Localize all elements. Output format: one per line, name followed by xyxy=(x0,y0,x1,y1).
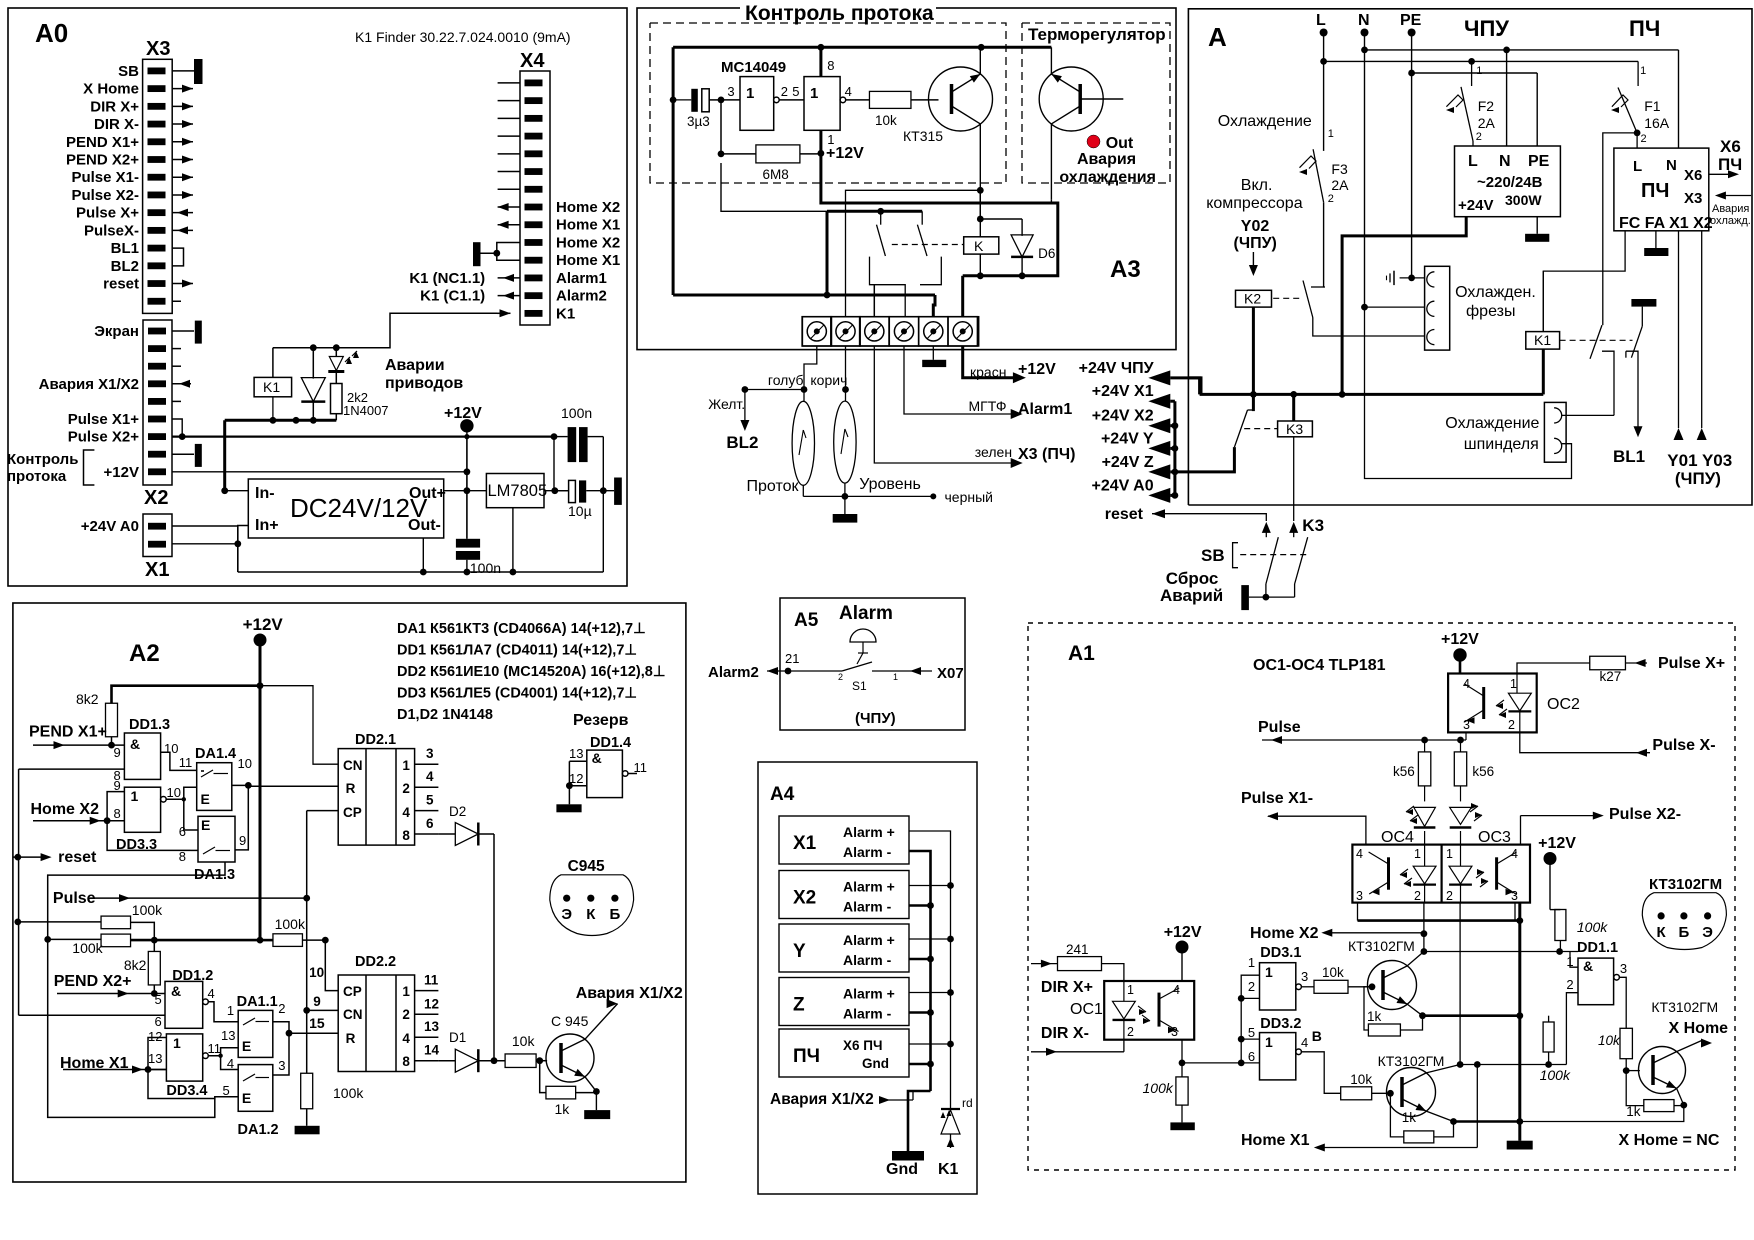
svg-text:N: N xyxy=(1499,153,1511,170)
wire R inputs DD2.2 xyxy=(289,1032,338,1034)
svg-text:&: & xyxy=(171,983,181,999)
X3 pin 6 PEND X2+ xyxy=(148,156,166,163)
svg-text:1: 1 xyxy=(1414,847,1421,861)
svg-text:+24V X2: +24V X2 xyxy=(1092,408,1154,425)
svg-text:X2: X2 xyxy=(793,888,816,909)
gate DD1.1 output xyxy=(1614,975,1620,981)
svg-text:E: E xyxy=(201,817,210,833)
svg-text:Home X2: Home X2 xyxy=(1250,925,1319,942)
X4 pin 2 xyxy=(525,97,543,104)
svg-text:DIR X-: DIR X- xyxy=(1041,1025,1089,1042)
wire DD1.1 out to 10k xyxy=(1619,977,1626,1028)
bus tap +24V Z xyxy=(1170,470,1175,473)
DD2.2 out pin 13 xyxy=(415,1036,439,1038)
svg-text:10k: 10k xyxy=(1322,965,1344,980)
svg-text:CP: CP xyxy=(343,805,362,820)
svg-text:ПЧ: ПЧ xyxy=(793,1046,820,1067)
wire reset arrow xyxy=(13,856,45,858)
wire K2 contact bottom to фрезы xyxy=(1313,318,1425,337)
svg-text:Уровень: Уровень xyxy=(859,476,921,493)
wire D2 to D1 node xyxy=(493,834,495,1058)
wire K1 bottom thick rail xyxy=(225,419,337,422)
resistor 10k Q2 xyxy=(1341,1087,1372,1100)
transistor Q1 xyxy=(1368,961,1417,1010)
svg-text:Alarm -: Alarm - xyxy=(843,1006,892,1022)
wire LM7805 out xyxy=(544,490,568,492)
wire Y02 arrow xyxy=(1252,252,1254,268)
+12V node OC2 xyxy=(1454,649,1466,661)
X4 pin 12 Alarm1 xyxy=(525,275,543,282)
svg-text:Alarm: Alarm xyxy=(839,603,893,624)
svg-text:2: 2 xyxy=(1476,131,1482,143)
wire reset right xyxy=(1152,514,1266,521)
svg-text:1: 1 xyxy=(227,1003,234,1018)
svg-text:E: E xyxy=(201,791,210,807)
svg-text:6: 6 xyxy=(155,1014,162,1029)
gate DD1.1 xyxy=(1578,958,1614,1005)
resistor k56 left xyxy=(1424,740,1426,752)
wire T3 down xyxy=(874,346,1017,463)
dashed box Контроль протока inner xyxy=(650,23,1006,183)
wire шпиндель arc2 N return xyxy=(1365,307,1572,478)
svg-text:компрессора: компрессора xyxy=(1206,195,1303,212)
OC2 phototransistor xyxy=(1482,687,1485,719)
wire Home X2 arrow xyxy=(1327,932,1424,934)
wire Q2 emitter xyxy=(1426,1111,1453,1121)
svg-text:+12V: +12V xyxy=(1018,361,1056,378)
wire DD1.2 pin6 xyxy=(19,1014,165,1016)
wire Home X1 arrow A1 xyxy=(1320,1147,1477,1149)
wire X3 arrow xyxy=(1725,195,1751,197)
svg-text:4: 4 xyxy=(208,986,215,1001)
svg-text:+24V Y: +24V Y xyxy=(1101,430,1154,447)
resistor k27 xyxy=(1590,656,1626,670)
wire K3 stub from rail xyxy=(1252,394,1255,411)
X2 pin 9 +12V xyxy=(148,468,166,475)
svg-text:100k: 100k xyxy=(1540,1067,1571,1083)
X3 out arrow DIR X+ xyxy=(172,105,193,107)
svg-text:10k: 10k xyxy=(1598,1033,1621,1048)
wire DD3.3 out to DA1.3 pin6 xyxy=(184,799,198,830)
sensor Уровень xyxy=(834,401,856,483)
svg-text:10: 10 xyxy=(167,785,181,800)
wire DA1.2 output xyxy=(273,1033,289,1075)
svg-text:2: 2 xyxy=(1508,718,1515,732)
X4 out arrow Home X2 xyxy=(498,206,520,208)
A4 X1 Alarm- wire xyxy=(909,851,931,1091)
svg-text:9: 9 xyxy=(239,833,246,848)
svg-text:Alarm -: Alarm - xyxy=(843,899,892,915)
block A0 border xyxy=(8,8,627,586)
svg-text:Pulse X+: Pulse X+ xyxy=(1658,655,1725,672)
svg-text:reset: reset xyxy=(103,276,139,293)
svg-text:9: 9 xyxy=(114,745,121,760)
wire +12V to OC2 xyxy=(1459,661,1462,674)
svg-text:Охлажден.: Охлажден. xyxy=(1455,284,1536,301)
wire Pulse arrow xyxy=(90,897,307,899)
svg-text:1: 1 xyxy=(1510,677,1517,691)
title Контроль протока xyxy=(740,0,936,22)
svg-text:BL1: BL1 xyxy=(111,240,139,257)
wire N to фрезы arc2 xyxy=(1365,306,1425,308)
wire k27 to OC2 pin1 xyxy=(1517,663,1590,674)
svg-text:Pulse X2+: Pulse X2+ xyxy=(68,429,140,446)
wire DIR X+ arrow xyxy=(1031,963,1058,965)
node голуб xyxy=(801,386,808,393)
svg-text:DD1.3: DD1.3 xyxy=(129,717,170,733)
wire N to PSU xyxy=(1506,50,1508,146)
X4 pin 8 Home X2 xyxy=(525,204,543,211)
X2 pin5 stub xyxy=(172,400,181,402)
svg-text:L: L xyxy=(1633,158,1642,175)
X4 pin 1 xyxy=(525,80,543,87)
svg-text:8: 8 xyxy=(179,849,186,864)
terminal 3 xyxy=(860,317,889,346)
svg-text:In+: In+ xyxy=(255,517,279,534)
svg-text:5: 5 xyxy=(792,84,799,99)
svg-text:D6: D6 xyxy=(1038,246,1055,261)
svg-text:2: 2 xyxy=(1566,977,1573,992)
svg-text:охлаждения: охлаждения xyxy=(1059,169,1156,186)
X2 pin 4 Авария X1/X2 xyxy=(148,380,166,387)
wire Home X1 drop xyxy=(1476,1065,1478,1148)
wire N branch xyxy=(1364,33,1366,71)
svg-text:reset: reset xyxy=(58,849,97,866)
svg-text:Gnd: Gnd xyxy=(862,1056,889,1071)
svg-text:A2: A2 xyxy=(129,640,160,667)
wire 10k to KT315 base xyxy=(911,99,939,101)
gate DD3.2 output B xyxy=(1296,1049,1302,1055)
wire Q3 collector X Home xyxy=(1677,1040,1702,1051)
wire K3 coil bottom xyxy=(1293,437,1295,521)
X2 Авария X1/X2 in-arrow xyxy=(172,383,191,385)
+12V node mid A1 xyxy=(1544,853,1556,865)
wire DD2.2 CN from pulse net xyxy=(307,1009,339,1011)
wire Out- pin xyxy=(422,538,424,572)
wire Home X2 arrow xyxy=(33,820,124,822)
svg-text:PE: PE xyxy=(1528,153,1550,170)
contact blade A3 left xyxy=(880,211,882,224)
svg-text:K2: K2 xyxy=(1244,291,1261,307)
svg-text:15: 15 xyxy=(309,1015,325,1031)
node корич xyxy=(842,386,849,393)
LED rd K1 xyxy=(950,1102,952,1109)
svg-text:+24V A0: +24V A0 xyxy=(81,518,139,535)
switch S1 xyxy=(785,668,792,675)
X3 pin 5 PEND X1+ xyxy=(148,138,166,145)
svg-text:9: 9 xyxy=(114,778,121,793)
wire T2 up xyxy=(846,190,981,316)
svg-text:Pulse X2-: Pulse X2- xyxy=(71,187,139,204)
wire SB common xyxy=(1249,596,1295,598)
svg-text:5: 5 xyxy=(223,1083,230,1098)
svg-text:DIR X+: DIR X+ xyxy=(90,98,139,115)
arrow Y01 xyxy=(1674,428,1684,440)
bus +24V right xyxy=(1173,401,1176,495)
svg-text:DIR X-: DIR X- xyxy=(94,116,139,133)
svg-text:K1: K1 xyxy=(263,379,280,395)
svg-text:ПЧ: ПЧ xyxy=(1629,16,1660,41)
svg-text:Pulse X1+: Pulse X1+ xyxy=(68,411,140,428)
wire PE to PSU xyxy=(1536,73,1538,146)
svg-text:OC1-OC4 TLP181: OC1-OC4 TLP181 xyxy=(1253,657,1386,674)
svg-text:4: 4 xyxy=(1301,1035,1308,1050)
svg-text:Pulse: Pulse xyxy=(53,890,96,907)
wire +12V rail (Pulse X2+ row) xyxy=(172,436,554,438)
X4 pin4 stub xyxy=(498,135,520,137)
X2 pin2 stub xyxy=(172,348,181,350)
resistor 6M8 xyxy=(756,145,800,163)
wire +24V Z via contact xyxy=(1175,447,1235,472)
svg-text:2: 2 xyxy=(838,672,843,682)
X2 pin 1 Экран xyxy=(148,328,166,335)
ground bar T5 xyxy=(922,360,946,367)
X1 pin 1 +24V A0 xyxy=(148,523,166,530)
svg-text:10k: 10k xyxy=(512,1033,536,1049)
svg-text:DA1 К561КТ3 (CD4066A) 14(+12),: DA1 К561КТ3 (CD4066A) 14(+12),7⊥ xyxy=(397,621,646,637)
svg-text:X07: X07 xyxy=(937,665,964,682)
capacitor 3u3 xyxy=(673,99,691,101)
X3 out arrow PEND X1+ xyxy=(172,141,193,143)
X3 out arrow PEND X2+ xyxy=(172,159,193,161)
X3 pin 8 Pulse X2- xyxy=(148,192,166,199)
svg-text:OC1: OC1 xyxy=(1070,1001,1103,1018)
wire +12V junction r2 xyxy=(131,939,260,942)
svg-text:+12V: +12V xyxy=(826,145,864,162)
svg-text:4: 4 xyxy=(845,84,852,99)
svg-text:6: 6 xyxy=(426,816,434,831)
svg-text:Вкл.: Вкл. xyxy=(1241,177,1273,194)
svg-text:DD3.2: DD3.2 xyxy=(1260,1016,1301,1032)
svg-text:2: 2 xyxy=(1414,889,1421,903)
terminal 4 xyxy=(889,317,918,346)
svg-text:1: 1 xyxy=(1476,65,1482,77)
svg-text:8: 8 xyxy=(827,58,834,73)
svg-text:K1: K1 xyxy=(938,1161,959,1178)
svg-text:4: 4 xyxy=(402,1031,410,1046)
A4 box Z xyxy=(779,978,909,1026)
svg-text:Alarm1: Alarm1 xyxy=(556,270,607,287)
resistor 100k r2 xyxy=(101,934,131,947)
svg-text:8: 8 xyxy=(114,806,121,821)
wire шпиндель arc1 to K1a xyxy=(1562,414,1614,416)
svg-text:К: К xyxy=(1657,924,1667,941)
wire DD1.1 pin1 net xyxy=(1424,951,1578,953)
svg-text:Alarm -: Alarm - xyxy=(843,952,892,968)
svg-text:1: 1 xyxy=(746,85,754,102)
svg-text:CN: CN xyxy=(343,1007,363,1022)
DD2.2 out pin 12 xyxy=(415,1013,439,1015)
wire +24V rail to ЧПУ label xyxy=(1189,378,1200,395)
wire thermo emitter to K node xyxy=(1050,200,1052,202)
svg-text:+24V ЧПУ: +24V ЧПУ xyxy=(1079,360,1155,377)
SB blade 1 xyxy=(1266,537,1278,584)
resistor 100k pullup DD1.1 xyxy=(1555,910,1566,941)
svg-text:10: 10 xyxy=(238,756,252,771)
connector Охлаждение шпинделя xyxy=(1544,402,1566,462)
ground bar sensors xyxy=(844,496,846,514)
wire K1 top rail xyxy=(272,348,274,378)
X4 pin 4 xyxy=(525,133,543,140)
svg-text:Pulse X1-: Pulse X1- xyxy=(1241,790,1313,807)
svg-text:100k: 100k xyxy=(333,1085,364,1101)
svg-text:16A: 16A xyxy=(1644,115,1670,131)
resistor 10k Q3 xyxy=(1620,1028,1632,1058)
wire T6 thick down xyxy=(963,274,981,277)
wire Q2 collector xyxy=(1426,1065,1460,1073)
svg-text:CN: CN xyxy=(343,758,363,773)
svg-text:DD3 К561ЛЕ5 (CD4001) 14(+12),7: DD3 К561ЛЕ5 (CD4001) 14(+12),7⊥ xyxy=(397,686,637,702)
indicator LED right xyxy=(1460,786,1462,802)
svg-text:3: 3 xyxy=(727,84,734,99)
bus tap +24V A0 xyxy=(1170,494,1175,497)
svg-text:Home X2: Home X2 xyxy=(556,234,620,251)
svg-text:X Home = NC: X Home = NC xyxy=(1619,1132,1720,1149)
X4 pin 9 Home X1 xyxy=(525,221,543,228)
dashed K3 link xyxy=(1244,428,1277,430)
bell symbol S1 xyxy=(850,629,876,642)
dashed K2 link xyxy=(1273,297,1303,299)
diode D6 xyxy=(980,218,1022,220)
ground bar OC1 xyxy=(1181,1105,1183,1122)
wire Q2 emitter to gnd rail xyxy=(1454,1120,1520,1123)
A4 box X1 xyxy=(779,816,909,864)
relay K2 coil xyxy=(1236,290,1272,307)
svg-text:Pulse X1-: Pulse X1- xyxy=(71,169,139,186)
svg-text:(ЧПУ): (ЧПУ) xyxy=(855,710,896,727)
optocoupler OC2 box xyxy=(1448,674,1537,733)
wire +12V to OC1 pin4 xyxy=(1181,953,1183,981)
wire K3 coil top thick xyxy=(1292,394,1295,421)
relay K coil xyxy=(979,189,981,237)
bus tap +24V Y xyxy=(1170,447,1175,450)
A4 X2 Alarm- wire xyxy=(909,904,931,907)
inverter U1b MC14049 xyxy=(779,99,804,101)
svg-text:5: 5 xyxy=(426,793,434,808)
X4 pin 7 xyxy=(525,186,543,193)
X4 out arrow Home X1 xyxy=(498,224,520,226)
svg-text:1: 1 xyxy=(1640,65,1646,77)
svg-text:DD2.2: DD2.2 xyxy=(355,954,396,970)
svg-text:X4: X4 xyxy=(520,50,545,72)
svg-text:SB: SB xyxy=(1201,546,1225,565)
wire gnd bus A1 xyxy=(1518,903,1521,1141)
block A1 dashed border xyxy=(1028,623,1735,1170)
svg-text:Авария X1/X2: Авария X1/X2 xyxy=(39,376,139,393)
svg-text:Терморегулятор: Терморегулятор xyxy=(1028,25,1166,44)
sensor Проток xyxy=(792,401,814,485)
svg-text:Авария: Авария xyxy=(1077,151,1136,168)
svg-text:13: 13 xyxy=(569,746,583,761)
svg-text:X1: X1 xyxy=(145,559,169,581)
terminal block A3 xyxy=(802,317,978,346)
svg-text:4: 4 xyxy=(1356,847,1363,861)
wire K2 down thick xyxy=(1252,307,1255,394)
wire T5 ground xyxy=(932,346,934,360)
svg-text:4: 4 xyxy=(227,1056,234,1071)
X4 pin3 stub xyxy=(498,117,520,119)
wire F1 to ПЧ L xyxy=(1636,133,1638,148)
wire Home X1 net vertical xyxy=(48,939,239,1117)
wire N vertical long xyxy=(1364,70,1366,307)
wire DA1.4 output node xyxy=(232,784,249,786)
diode 1N4007 xyxy=(312,348,314,379)
svg-text:BL2: BL2 xyxy=(726,433,758,452)
wire 10k to base xyxy=(536,1060,547,1062)
block A border xyxy=(1188,9,1752,505)
svg-text:2: 2 xyxy=(1446,889,1453,903)
dashed K1 link xyxy=(1560,339,1633,341)
svg-text:1: 1 xyxy=(1127,983,1134,997)
svg-text:Gnd: Gnd xyxy=(886,1161,918,1178)
wire In- drop xyxy=(223,420,226,490)
svg-text:DA1.1: DA1.1 xyxy=(237,994,278,1010)
wire thermo emitter down xyxy=(1050,124,1052,200)
svg-text:1: 1 xyxy=(1248,955,1255,970)
svg-text:F2: F2 xyxy=(1478,98,1495,114)
svg-text:100k: 100k xyxy=(1143,1080,1174,1096)
wire DD3.2 out to 10k xyxy=(1301,1052,1340,1094)
wire DD1.3 pin8 reset net xyxy=(19,768,125,770)
wire PSU +24V out thick xyxy=(1342,217,1466,395)
OC3 LED internal xyxy=(1460,831,1462,866)
svg-text:A4: A4 xyxy=(770,784,795,805)
X4 pin 11 Home X1 xyxy=(525,257,543,264)
DD2.1 out pin 5 xyxy=(415,810,439,812)
svg-text:+12V: +12V xyxy=(1538,835,1576,852)
svg-text:КТ3102ГМ: КТ3102ГМ xyxy=(1378,1053,1445,1069)
svg-text:фрезы: фрезы xyxy=(1466,303,1515,320)
gate DD3.4 output xyxy=(203,1053,209,1059)
svg-text:Охлаждение: Охлаждение xyxy=(1445,415,1539,432)
X3 pin 11 BL1 xyxy=(148,245,166,252)
X3 SB shield bar xyxy=(172,70,194,72)
svg-text:DA1.2: DA1.2 xyxy=(238,1122,279,1138)
OC1 phototransistor xyxy=(1158,993,1161,1027)
wire Out+ to LM7805 xyxy=(444,490,487,492)
svg-text:DD2 К561ИЕ10 (МС14520А) 16(+12: DD2 К561ИЕ10 (МС14520А) 16(+12),8⊥ xyxy=(397,664,666,680)
ground bar pulldown xyxy=(306,1109,308,1126)
terminal 2 xyxy=(831,317,860,346)
block Контроль протока border xyxy=(637,8,1176,350)
terminal 6 xyxy=(948,317,977,346)
svg-text:rd: rd xyxy=(962,1096,973,1110)
svg-text:R: R xyxy=(346,1031,356,1046)
svg-text:X6: X6 xyxy=(1720,137,1741,156)
svg-text:2A: 2A xyxy=(1331,177,1349,193)
svg-text:Аварии: Аварии xyxy=(385,357,445,374)
wire +24V ЧПУ feed xyxy=(1170,376,1189,379)
svg-text:X6: X6 xyxy=(1684,167,1702,184)
wire T4 down xyxy=(904,346,1017,414)
svg-text:Резерв: Резерв xyxy=(573,712,629,729)
svg-text:(ЧПУ): (ЧПУ) xyxy=(1234,235,1277,252)
contact blade A3 right xyxy=(921,211,923,224)
wire contact rail A3 xyxy=(827,210,922,213)
ground bar right A0 xyxy=(614,478,622,505)
svg-text:In-: In- xyxy=(255,485,275,502)
wire K1 coil bottom thick xyxy=(1542,349,1545,394)
X4 pin 6 xyxy=(525,168,543,175)
svg-text:Y02: Y02 xyxy=(1241,218,1270,235)
svg-text:Авария X1/X2: Авария X1/X2 xyxy=(770,1091,874,1108)
DD2.1 out pin 4 xyxy=(415,786,439,788)
wire PE branch xyxy=(1411,33,1413,278)
svg-text:Alarm +: Alarm + xyxy=(843,879,895,895)
svg-text:DD3.4: DD3.4 xyxy=(166,1083,207,1099)
svg-text:протока: протока xyxy=(7,468,67,485)
svg-text:3: 3 xyxy=(1620,961,1627,976)
